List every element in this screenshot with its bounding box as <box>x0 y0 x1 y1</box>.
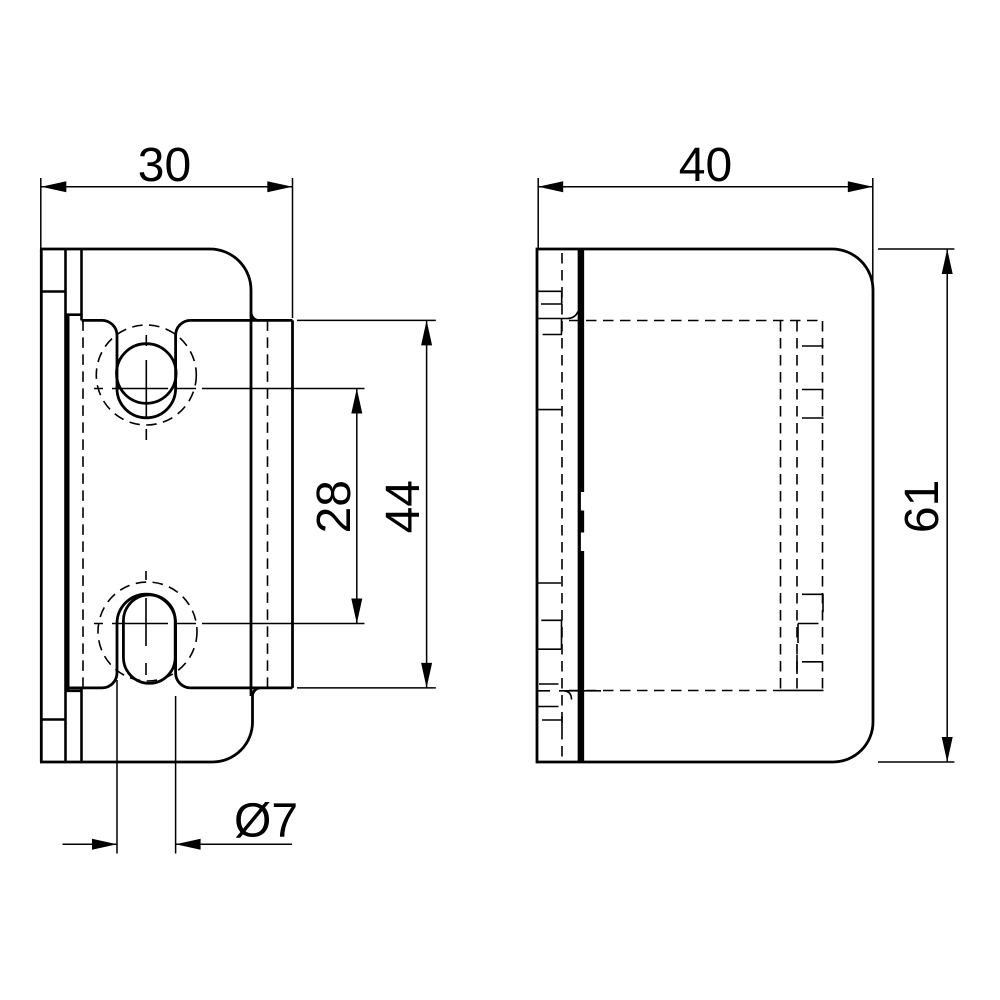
svg-text:40: 40 <box>679 139 732 192</box>
svg-text:44: 44 <box>377 480 430 533</box>
svg-text:61: 61 <box>896 480 949 533</box>
svg-text:Ø7: Ø7 <box>234 795 298 848</box>
svg-text:28: 28 <box>308 480 361 533</box>
svg-text:30: 30 <box>138 139 191 192</box>
